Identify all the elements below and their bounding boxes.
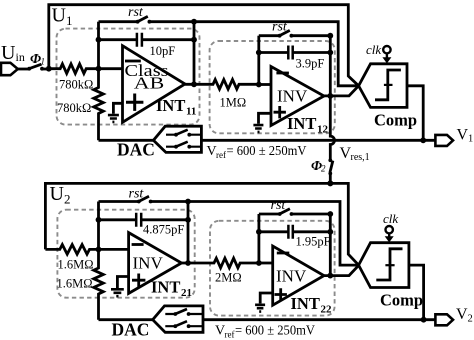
svg-text:Comp: Comp bbox=[374, 111, 417, 130]
wire INT11 output to comp middle input bbox=[194, 22, 359, 86]
junction INT21 rst-right bbox=[185, 199, 191, 205]
DAC2 body bbox=[153, 306, 203, 332]
svg-text:rst: rst bbox=[271, 198, 287, 213]
port Uin tag bbox=[1, 63, 18, 75]
minus mark INT11 bbox=[125, 60, 141, 63]
switch rst22 bbox=[280, 209, 290, 214]
ground INT11 bbox=[113, 103, 122, 113]
svg-text:rst: rst bbox=[128, 5, 144, 20]
junction INT11 cap-left bbox=[96, 37, 102, 43]
wire INT22 input row bbox=[259, 262, 273, 265]
ground INT21 bbox=[117, 277, 128, 289]
svg-text:3.9pF: 3.9pF bbox=[296, 57, 325, 71]
svg-text:21: 21 bbox=[181, 287, 192, 299]
svg-text:U: U bbox=[1, 42, 16, 64]
svg-text:rst: rst bbox=[272, 20, 288, 35]
junction INT21 cap-right bbox=[185, 217, 191, 223]
svg-text:1: 1 bbox=[66, 13, 73, 28]
wire rst12 row bbox=[259, 34, 331, 37]
DAC1 switch row 1 bbox=[166, 134, 201, 136]
node INT12 output bbox=[327, 93, 333, 99]
junction INT21 cap-left bbox=[96, 217, 102, 223]
ground INT22 bbox=[260, 293, 273, 303]
wire INT21 output to comp middle input bbox=[188, 202, 359, 266]
clk1 terminal bbox=[383, 46, 390, 53]
plus mark INT12 bbox=[274, 106, 286, 118]
switch phi1 bbox=[29, 64, 42, 69]
junction INT22 cap-left bbox=[256, 229, 262, 235]
node V2 junction bbox=[421, 317, 427, 323]
svg-text:DAC: DAC bbox=[117, 140, 155, 160]
svg-text:V: V bbox=[456, 306, 468, 323]
dashed box INT22 bbox=[210, 221, 335, 316]
clk2 terminal bbox=[386, 226, 393, 233]
junction INT22 rst-right bbox=[327, 211, 333, 217]
svg-text:INT: INT bbox=[151, 278, 180, 297]
minus mark INT12 bbox=[276, 72, 289, 75]
svg-text:INT: INT bbox=[291, 294, 320, 313]
resistor R2 780k vertical bbox=[94, 69, 104, 141]
svg-text:2: 2 bbox=[321, 164, 326, 174]
wire rst21 row right bbox=[151, 200, 188, 203]
svg-text:V: V bbox=[457, 127, 469, 144]
switch rst12 bbox=[279, 30, 289, 35]
DAC1 switch row 2 bbox=[166, 146, 201, 148]
svg-text:INT: INT bbox=[287, 114, 316, 133]
wire INT21 input row bbox=[99, 248, 129, 251]
wire U2 loop (junction to input resistor and to comp upper input) bbox=[45, 183, 358, 265]
svg-text:4.875pF: 4.875pF bbox=[143, 223, 184, 237]
wire INT22 output to comp lower input bbox=[324, 265, 359, 275]
svg-text:11: 11 bbox=[186, 106, 196, 118]
svg-text:clk: clk bbox=[383, 211, 398, 226]
svg-text:1.6MΩ: 1.6MΩ bbox=[58, 258, 94, 272]
hysteresis symbol Comp1 bbox=[375, 70, 401, 100]
port V1 tag bbox=[435, 135, 453, 146]
wire cap22 row bbox=[259, 230, 330, 233]
svg-text:1.6MΩ: 1.6MΩ bbox=[57, 277, 93, 291]
node B2 bbox=[96, 247, 102, 253]
port V2 tag bbox=[435, 314, 453, 325]
svg-text:780kΩ: 780kΩ bbox=[57, 101, 91, 115]
wire V2 row bbox=[203, 318, 435, 321]
DAC2 switch row 1 bbox=[165, 313, 203, 315]
plus mark INT22 bbox=[275, 288, 287, 300]
svg-text:22: 22 bbox=[321, 304, 333, 316]
DAC2 switch row 2 bbox=[165, 325, 203, 327]
wire rst row right bbox=[149, 20, 194, 23]
wire INT12 right feedback column bbox=[329, 36, 332, 96]
capacitor C12 3.9pF plates bbox=[288, 46, 292, 60]
comparator Comp2 body bbox=[359, 243, 409, 288]
svg-text:1: 1 bbox=[468, 134, 473, 145]
svg-text:INV: INV bbox=[133, 254, 164, 273]
svg-text:2: 2 bbox=[64, 192, 71, 207]
junction INT11 cap-right bbox=[191, 37, 197, 43]
node A bbox=[46, 66, 52, 72]
op-amp U21 triangle bbox=[129, 233, 182, 294]
wire right feedback column bbox=[193, 22, 196, 85]
op-amp U22 triangle bbox=[273, 246, 324, 305]
plus mark INT21 bbox=[132, 274, 145, 287]
svg-text:clk: clk bbox=[366, 42, 381, 57]
node INT22 input bbox=[256, 260, 262, 266]
wire right feedback column stage2 bbox=[187, 202, 190, 264]
hysteresis symbol Comp2 bbox=[376, 249, 402, 280]
capacitor C22 1.95pF plates bbox=[288, 225, 292, 239]
wire cap21 row bbox=[99, 218, 189, 221]
svg-text:2MΩ: 2MΩ bbox=[215, 271, 242, 285]
wire rst row left bbox=[99, 20, 138, 23]
op-amp U11 triangle bbox=[123, 46, 186, 123]
svg-text:780kΩ: 780kΩ bbox=[59, 78, 93, 92]
svg-text:Φ: Φ bbox=[30, 52, 41, 67]
node INT22 output bbox=[327, 273, 333, 279]
junction INT22 cap-right bbox=[327, 229, 333, 235]
wire cap12 row bbox=[259, 51, 331, 54]
junction INT11 rst-right bbox=[191, 19, 197, 25]
svg-text:12: 12 bbox=[317, 124, 329, 136]
comparator Comp1 body bbox=[359, 64, 407, 108]
resistor R1 780k horizontal bbox=[49, 64, 99, 74]
wire INT12 left feedback column bbox=[257, 36, 260, 85]
capacitor C11 10pF plates bbox=[137, 33, 142, 47]
switch phi2 bbox=[330, 161, 333, 173]
svg-text:in: in bbox=[16, 50, 25, 64]
svg-text:rst: rst bbox=[129, 187, 145, 202]
svg-text:2: 2 bbox=[468, 314, 473, 325]
svg-text:= 600 ± 250mV: = 600 ± 250mV bbox=[227, 143, 307, 158]
node B bbox=[96, 66, 102, 72]
node Vres1 bottom junction bbox=[327, 180, 333, 186]
junction INT12 cap-right bbox=[327, 50, 333, 56]
wire Comp2 output bbox=[409, 265, 424, 320]
wire switch to node A bbox=[43, 68, 49, 71]
svg-text:res,1: res,1 bbox=[351, 152, 370, 163]
wire rst21 row left bbox=[99, 200, 139, 203]
resistor R5 1.6M vertical bbox=[94, 249, 104, 319]
wire INT22 right feedback column bbox=[329, 214, 332, 276]
node INT11 output bbox=[191, 81, 197, 87]
svg-text:DAC: DAC bbox=[112, 320, 150, 340]
svg-text:INT: INT bbox=[156, 96, 185, 115]
wire INT11 output row with resistor 1M bbox=[185, 80, 259, 90]
wire INT12 input row bbox=[259, 83, 271, 86]
switch rst1 bbox=[137, 16, 147, 21]
wire Vres1 column with hop bbox=[330, 96, 334, 183]
wire DAC1 output to node B column bbox=[99, 139, 154, 142]
node INT21 output bbox=[185, 260, 191, 266]
svg-text:U: U bbox=[52, 5, 67, 27]
svg-text:U: U bbox=[50, 183, 65, 205]
svg-text:ref: ref bbox=[216, 150, 226, 160]
node INT12 input bbox=[256, 82, 262, 88]
junction INT12 cap-left bbox=[256, 50, 262, 56]
DAC1 body bbox=[153, 126, 201, 152]
wire DAC2 output to node B2 column bbox=[99, 318, 153, 321]
wire input row tag to switch bbox=[18, 68, 29, 71]
wire cap row bbox=[99, 38, 195, 41]
svg-text:Comp: Comp bbox=[380, 291, 423, 310]
svg-text:ref: ref bbox=[225, 330, 235, 340]
dashed box INT11 bbox=[57, 29, 200, 125]
svg-text:1MΩ: 1MΩ bbox=[220, 96, 247, 110]
wire V1 row bbox=[201, 139, 435, 142]
svg-text:= 600 ± 250mV: = 600 ± 250mV bbox=[235, 323, 315, 338]
svg-text:INV: INV bbox=[276, 267, 307, 286]
ground INT12 bbox=[259, 113, 272, 123]
wire left feedback column stage2 bbox=[97, 202, 100, 250]
dashed box INT21 bbox=[57, 210, 194, 298]
wire Comp1 output bbox=[407, 86, 423, 141]
minus mark INT21 bbox=[132, 243, 144, 246]
plus mark INT11 bbox=[126, 94, 143, 111]
wire INT12 output to comp lower input bbox=[324, 86, 359, 96]
minus mark INT22 bbox=[277, 252, 290, 255]
svg-text:1: 1 bbox=[41, 57, 46, 67]
wire INT22 left feedback column bbox=[257, 214, 260, 263]
wire U1 loop (node A up, top line, down to comp upper input) bbox=[49, 5, 359, 86]
wire INT21 output row with resistor 2M bbox=[182, 258, 259, 268]
svg-text:1.95pF: 1.95pF bbox=[296, 235, 331, 249]
wire INT11 input row bbox=[99, 67, 123, 70]
switch rst21 bbox=[139, 196, 149, 201]
node V1 junction bbox=[420, 137, 426, 143]
junction INT12 rst-right bbox=[327, 33, 333, 39]
svg-text:AB: AB bbox=[134, 74, 165, 93]
wire rst22 row bbox=[259, 213, 330, 216]
capacitor C21 4.875pF plates bbox=[136, 213, 141, 227]
dashed box INT12 bbox=[210, 41, 335, 133]
op-amp U12 triangle bbox=[271, 67, 324, 126]
svg-text:10pF: 10pF bbox=[150, 44, 176, 58]
resistor R4 1.6M horizontal bbox=[45, 245, 98, 255]
wire left feedback column bbox=[97, 22, 100, 69]
svg-text:INV: INV bbox=[277, 87, 308, 106]
